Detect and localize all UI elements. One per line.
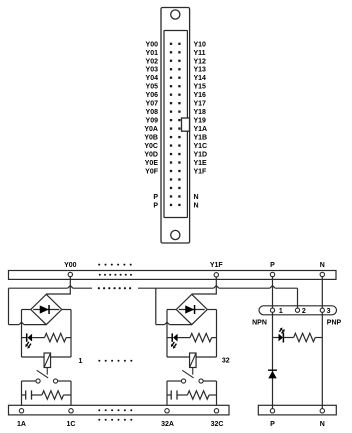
svg-text:Y15: Y15	[194, 84, 207, 91]
svg-text:Y0B: Y0B	[144, 135, 158, 142]
svg-text:32C: 32C	[211, 421, 224, 428]
svg-text:Y0C: Y0C	[144, 143, 158, 150]
svg-text:Y14: Y14	[194, 75, 207, 82]
svg-text:Y09: Y09	[146, 118, 159, 125]
svg-text:Y1A: Y1A	[194, 126, 208, 133]
svg-text:Y08: Y08	[146, 109, 159, 116]
svg-text:Y04: Y04	[146, 75, 159, 82]
svg-text:1: 1	[279, 308, 283, 315]
svg-text:Y07: Y07	[146, 101, 159, 108]
svg-text:Y16: Y16	[194, 92, 207, 99]
svg-text:PNP: PNP	[327, 320, 342, 327]
svg-text:3: 3	[327, 308, 331, 315]
svg-text:Y11: Y11	[194, 50, 206, 57]
svg-text:Y1B: Y1B	[194, 135, 208, 142]
svg-text:P: P	[270, 421, 275, 428]
svg-text:Y1C: Y1C	[194, 143, 208, 150]
svg-text:1C: 1C	[67, 421, 76, 428]
svg-text:1: 1	[79, 358, 83, 365]
svg-text:Y19: Y19	[194, 118, 207, 125]
svg-text:Y12: Y12	[194, 58, 207, 65]
svg-text:N: N	[320, 421, 325, 428]
svg-text:Y00: Y00	[146, 41, 159, 48]
svg-text:Y18: Y18	[194, 109, 207, 116]
svg-text:Y0A: Y0A	[144, 126, 158, 133]
svg-text:Y1F: Y1F	[210, 262, 224, 269]
svg-text:Y02: Y02	[146, 58, 159, 65]
svg-text:2: 2	[302, 308, 306, 315]
svg-text:N: N	[320, 262, 325, 269]
svg-text:Y03: Y03	[146, 67, 159, 74]
svg-text:N: N	[194, 202, 199, 209]
svg-text:Y01: Y01	[146, 50, 159, 57]
svg-text:Y05: Y05	[146, 84, 159, 91]
svg-text:Y10: Y10	[194, 41, 207, 48]
svg-text:Y1F: Y1F	[194, 169, 208, 176]
svg-text:NPN: NPN	[252, 320, 267, 327]
svg-text:Y17: Y17	[194, 101, 207, 108]
svg-text:Y00: Y00	[64, 262, 77, 269]
svg-text:1A: 1A	[17, 421, 26, 428]
svg-text:P: P	[270, 262, 275, 269]
svg-text:Y0F: Y0F	[145, 169, 159, 176]
svg-text:Y06: Y06	[146, 92, 159, 99]
svg-text:P: P	[153, 194, 158, 201]
svg-text:P: P	[153, 202, 158, 209]
svg-text:N: N	[194, 194, 199, 201]
svg-text:Y13: Y13	[194, 67, 207, 74]
svg-text:32: 32	[222, 358, 230, 365]
svg-text:Y1E: Y1E	[194, 160, 208, 167]
svg-text:Y1D: Y1D	[194, 152, 208, 159]
svg-text:32A: 32A	[161, 421, 174, 428]
svg-text:Y0D: Y0D	[144, 152, 158, 159]
svg-text:Y0E: Y0E	[145, 160, 159, 167]
